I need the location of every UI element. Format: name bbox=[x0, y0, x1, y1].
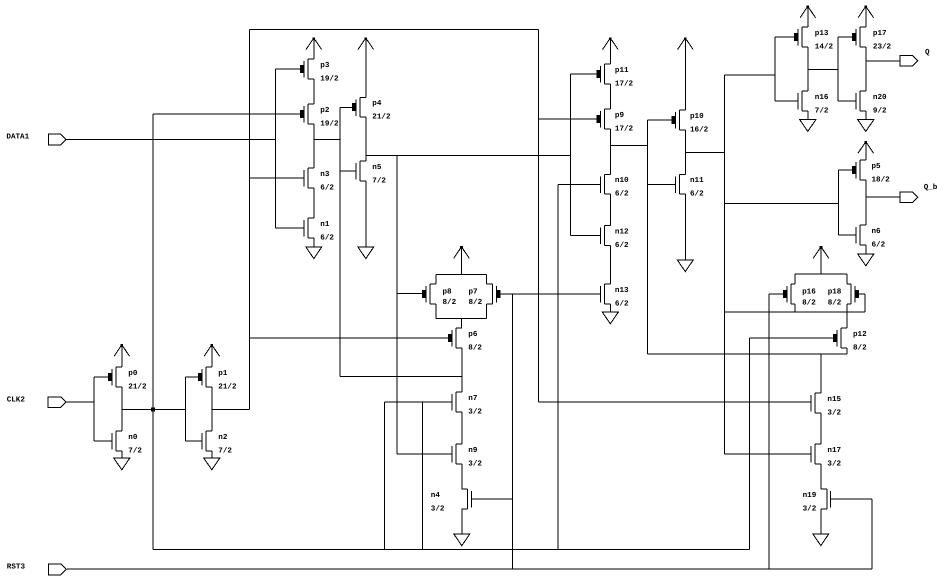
power VDD arrow above p17 bbox=[858, 6, 874, 27]
transistor n15 bbox=[811, 393, 842, 417]
wire pair1 box top bbox=[436, 274, 487, 284]
svg-text:3/2: 3/2 bbox=[468, 407, 482, 416]
svg-text:p3: p3 bbox=[320, 61, 330, 70]
svg-text:n15: n15 bbox=[827, 396, 841, 404]
wire Q_b output bbox=[866, 196, 900, 198]
svg-text:6/2: 6/2 bbox=[320, 233, 334, 242]
wire p3-p2 chain bbox=[313, 79, 315, 104]
wire p17/n20 input vertical bbox=[837, 37, 839, 101]
wire Q output bbox=[866, 60, 900, 62]
transistor p10 bbox=[671, 110, 708, 134]
wire p9-n10 chain bbox=[609, 129, 611, 175]
transistor p7 bbox=[469, 284, 501, 307]
svg-text:3/2: 3/2 bbox=[431, 504, 445, 513]
wire n12 gate bbox=[571, 235, 601, 237]
wire n19 gate bbox=[831, 498, 872, 500]
wire node S2 to p10/n11 input bbox=[610, 145, 647, 147]
power VDD arrow above p4 bbox=[358, 37, 374, 97]
transistor p1 bbox=[198, 367, 237, 391]
svg-text:7/2: 7/2 bbox=[218, 446, 232, 455]
transistor n19 bbox=[803, 489, 831, 513]
svg-text:6/2: 6/2 bbox=[872, 240, 886, 249]
wire p12 gate vertical bbox=[748, 338, 750, 550]
wire p13 gate bbox=[775, 36, 794, 38]
svg-text:n7: n7 bbox=[468, 395, 478, 403]
wire n9-n4 chain bbox=[461, 464, 463, 489]
svg-text:6/2: 6/2 bbox=[320, 183, 334, 192]
svg-text:6/2: 6/2 bbox=[615, 299, 629, 308]
wire p5-n6 chain bbox=[865, 180, 867, 225]
transistor n11 bbox=[676, 174, 705, 198]
wire p5/n6 input vertical bbox=[837, 170, 839, 235]
svg-text:p11: p11 bbox=[615, 67, 629, 75]
transistor n10 bbox=[601, 174, 630, 198]
ground below n20 bbox=[858, 111, 874, 132]
svg-text:8/2: 8/2 bbox=[828, 298, 842, 307]
transistor n4 bbox=[431, 489, 472, 513]
svg-text:n6: n6 bbox=[872, 227, 882, 236]
wire clkb vertical bbox=[152, 114, 154, 550]
wire n10-n12 chain bbox=[609, 194, 611, 225]
wire node M to p6/n7 midpoint bbox=[340, 376, 462, 378]
power VDD arrow above p5 bbox=[858, 141, 874, 160]
wire n4 gate bbox=[472, 498, 513, 500]
wire p0/n0 input vertical bbox=[93, 377, 95, 441]
wire n15-n17 chain bbox=[820, 413, 822, 444]
svg-text:n1: n1 bbox=[320, 221, 330, 229]
wire clk inverter2 output bbox=[212, 408, 250, 410]
svg-text:9/2: 9/2 bbox=[873, 106, 887, 115]
wire n15 gate bbox=[539, 401, 811, 403]
svg-text:19/2: 19/2 bbox=[320, 119, 339, 128]
wire p1/n2 input vertical bbox=[184, 377, 186, 441]
power VDD arrow above p11 bbox=[603, 37, 619, 64]
svg-text:p2: p2 bbox=[320, 106, 330, 115]
svg-text:n13: n13 bbox=[615, 286, 629, 295]
wire n0 gate bbox=[94, 440, 112, 442]
svg-text:n20: n20 bbox=[873, 93, 887, 102]
transistor n12 bbox=[601, 226, 630, 250]
svg-text:8/2: 8/2 bbox=[469, 298, 483, 307]
wire slave node vertical bbox=[723, 75, 725, 454]
transistor p0 bbox=[108, 367, 147, 391]
wire p18 gate drop bbox=[864, 294, 866, 312]
power VDD arrow above p1 bbox=[204, 344, 220, 367]
svg-text:21/2: 21/2 bbox=[218, 382, 237, 391]
wire n3-n1 chain bbox=[313, 188, 315, 218]
transistor n7 bbox=[452, 392, 482, 416]
svg-text:n0: n0 bbox=[128, 433, 138, 442]
wire p9 gate bbox=[539, 118, 597, 120]
wire n3 gate bbox=[250, 177, 304, 179]
wire pair2 box top bbox=[795, 274, 847, 284]
ground below n2 bbox=[204, 451, 220, 470]
transistor p3 bbox=[300, 59, 339, 83]
wire RST3 vertical to p16 bbox=[768, 294, 770, 569]
svg-text:3/2: 3/2 bbox=[468, 459, 482, 468]
svg-text:7/2: 7/2 bbox=[372, 176, 386, 185]
transistor n1 bbox=[304, 218, 334, 242]
input port RST3 bbox=[7, 563, 67, 575]
wire inverter to inverter bbox=[808, 68, 838, 70]
wire clk left vertical bbox=[249, 30, 251, 410]
transistor p8 bbox=[422, 284, 457, 307]
svg-text:n4: n4 bbox=[431, 492, 441, 500]
node clkb junction dot bbox=[151, 407, 155, 411]
ground below n19 bbox=[813, 509, 829, 546]
svg-text:7/2: 7/2 bbox=[815, 106, 829, 115]
wire n7 gate to clkb drop bbox=[422, 402, 424, 550]
svg-text:6/2: 6/2 bbox=[690, 190, 704, 199]
wire to Q inverter input bbox=[724, 74, 775, 76]
wire slave output to vertical bbox=[685, 152, 724, 154]
svg-text:6/2: 6/2 bbox=[615, 241, 629, 250]
svg-text:p7: p7 bbox=[469, 289, 479, 297]
wire p13-n16 chain bbox=[807, 47, 809, 91]
transistor n20 bbox=[856, 91, 887, 115]
wire p4 gate bbox=[340, 106, 352, 108]
wire p12 drain drop bbox=[846, 348, 848, 354]
svg-text:n9: n9 bbox=[468, 446, 478, 455]
svg-text:18/2: 18/2 bbox=[872, 175, 891, 184]
input port DATA1 bbox=[6, 133, 66, 145]
wire n1 gate bbox=[276, 227, 304, 229]
svg-text:n12: n12 bbox=[615, 227, 629, 236]
wire n10 gate bbox=[558, 183, 601, 185]
wire n5 gate bbox=[340, 170, 356, 172]
transistor p16 bbox=[783, 284, 816, 307]
svg-text:p5: p5 bbox=[872, 163, 882, 171]
power VDD arrow above p0 bbox=[114, 344, 130, 367]
svg-text:21/2: 21/2 bbox=[372, 113, 391, 122]
ground below n13 bbox=[602, 304, 618, 324]
transistor n0 bbox=[112, 431, 142, 455]
svg-text:p4: p4 bbox=[372, 100, 382, 108]
svg-text:n16: n16 bbox=[815, 93, 829, 102]
wire p11/n12 gate vertical bbox=[570, 74, 572, 236]
svg-text:23/2: 23/2 bbox=[873, 42, 892, 51]
wire p7/n13 gates bbox=[500, 293, 600, 295]
wire n7-n9 chain bbox=[461, 412, 463, 444]
svg-text:6/2: 6/2 bbox=[615, 190, 629, 199]
transistor p9 bbox=[596, 109, 633, 133]
wire p6 gate bbox=[250, 337, 448, 339]
svg-text:16/2: 16/2 bbox=[690, 125, 709, 134]
wire DATA1 gate vertical (p3/n1 gates) bbox=[275, 69, 277, 228]
svg-text:n19: n19 bbox=[803, 491, 817, 500]
svg-text:p0: p0 bbox=[128, 369, 138, 378]
wire RST3 rail bbox=[67, 568, 872, 570]
svg-text:3/2: 3/2 bbox=[827, 459, 841, 468]
wire n7 gate vertical bbox=[384, 402, 386, 550]
ground below n5 bbox=[358, 181, 374, 259]
wire n19 gate return vertical bbox=[871, 499, 873, 569]
svg-text:19/2: 19/2 bbox=[320, 74, 339, 83]
svg-text:n5: n5 bbox=[372, 164, 382, 172]
wire p18 drain drop bbox=[846, 304, 848, 312]
wire clkb inverter output bbox=[122, 408, 186, 410]
wire n17-n19 chain bbox=[820, 464, 822, 489]
svg-text:n2: n2 bbox=[218, 433, 228, 442]
transistor p2 bbox=[300, 104, 339, 128]
wire p8 gate bbox=[397, 292, 422, 294]
wire n2 gate bbox=[185, 440, 202, 442]
wire node S2 keeper horizontal bbox=[648, 353, 848, 355]
wire pair1 to p6 bbox=[461, 319, 463, 329]
svg-text:8/2: 8/2 bbox=[802, 298, 816, 307]
power VDD arrow above p3 bbox=[306, 37, 322, 59]
ground below n0 bbox=[114, 451, 130, 470]
power VDD arrow above p8/p7 pair bbox=[454, 246, 470, 274]
svg-text:n11: n11 bbox=[690, 177, 704, 185]
ground below n1 bbox=[306, 238, 322, 259]
transistor n9 bbox=[452, 444, 482, 468]
svg-text:p13: p13 bbox=[815, 29, 829, 38]
ground below n16 bbox=[800, 111, 816, 132]
wire clk mid vertical bbox=[538, 30, 540, 402]
transistor p17 bbox=[852, 27, 892, 51]
wire CLK2 from port bbox=[67, 401, 95, 403]
wire n12-n13 chain bbox=[609, 245, 611, 284]
svg-text:Q: Q bbox=[925, 48, 930, 57]
svg-text:p9: p9 bbox=[615, 111, 625, 120]
wire RST3 vertical to p7/n13 bbox=[511, 294, 513, 569]
svg-text:Q_b: Q_b bbox=[924, 183, 938, 192]
svg-text:p6: p6 bbox=[468, 330, 478, 339]
svg-text:21/2: 21/2 bbox=[128, 382, 147, 391]
svg-text:n3: n3 bbox=[320, 170, 330, 179]
wire n9 gate bbox=[397, 453, 452, 455]
wire p10 gate bbox=[648, 119, 672, 121]
wire p16 gate bbox=[769, 293, 783, 295]
svg-text:p16: p16 bbox=[802, 288, 816, 297]
wire n16 gate bbox=[775, 100, 798, 102]
wire p11 gate bbox=[571, 73, 597, 75]
wire p0-n0 chain bbox=[121, 387, 123, 431]
power VDD arrow above p13 bbox=[800, 6, 816, 27]
wire n11 gate bbox=[648, 183, 676, 185]
svg-text:p18: p18 bbox=[828, 288, 842, 297]
svg-text:p12: p12 bbox=[853, 330, 867, 339]
wire n20 gate bbox=[838, 100, 856, 102]
wire n10 gate vertical bbox=[557, 184, 559, 549]
wire clkb p2 gate bbox=[153, 113, 300, 115]
wire p18 gate bbox=[859, 293, 865, 295]
wire p10/n11 gate vertical bbox=[647, 120, 649, 354]
transistor n5 bbox=[356, 161, 386, 185]
transistor p4 bbox=[352, 97, 391, 121]
wire p16 drain drop bbox=[794, 304, 796, 312]
wire p6-n7 chain bbox=[461, 348, 463, 392]
transistor n2 bbox=[202, 431, 232, 455]
output port Q_b bbox=[900, 183, 938, 203]
wire n7 gate bbox=[385, 401, 453, 403]
wire pair1 box bottom bbox=[436, 304, 487, 319]
wire keeper source rail bbox=[724, 311, 865, 313]
ground below n6 bbox=[858, 245, 874, 266]
wire p17 gate bbox=[838, 36, 852, 38]
svg-text:n10: n10 bbox=[615, 176, 629, 185]
svg-text:8/2: 8/2 bbox=[853, 343, 867, 352]
wire n6 gate bbox=[838, 234, 856, 236]
wire node S horizontal bbox=[366, 154, 571, 156]
wire DATA1 from port to gate column bbox=[66, 139, 275, 141]
ground below n11 bbox=[677, 194, 693, 272]
svg-text:p1: p1 bbox=[218, 370, 228, 378]
transistor p12 bbox=[833, 328, 867, 352]
wire p12 gate bbox=[749, 337, 833, 339]
wire p17-n20 chain bbox=[865, 47, 867, 91]
wire n17 gate bbox=[724, 453, 811, 455]
svg-text:p8: p8 bbox=[443, 288, 453, 297]
wire clk top rail bbox=[250, 29, 539, 31]
transistor n17 bbox=[811, 444, 842, 468]
svg-text:14/2: 14/2 bbox=[815, 42, 834, 51]
power VDD arrow above p10 bbox=[678, 37, 694, 110]
wire p12 source drop bbox=[846, 312, 848, 328]
svg-text:8/2: 8/2 bbox=[468, 343, 482, 352]
svg-text:DATA1: DATA1 bbox=[6, 133, 29, 141]
svg-text:RST3: RST3 bbox=[7, 563, 26, 572]
transistor p6 bbox=[448, 328, 483, 352]
wire p13/n16 input vertical bbox=[774, 37, 776, 101]
wire p10-n11 chain bbox=[684, 130, 686, 175]
transistor n3 bbox=[304, 168, 334, 192]
wire p4-n5 chain bbox=[365, 117, 367, 161]
wire node M to inverter bbox=[314, 139, 340, 141]
output port Q bbox=[900, 48, 930, 66]
wire p1-n2 chain bbox=[211, 387, 213, 431]
wire clkb bottom rail bbox=[153, 549, 749, 551]
wire keeper to n15 drain bbox=[820, 354, 822, 393]
transistor p13 bbox=[794, 27, 834, 51]
ground below n4 bbox=[454, 509, 470, 546]
svg-text:CLK2: CLK2 bbox=[7, 396, 26, 405]
wire p1 gate bbox=[185, 376, 198, 378]
wire p11-p9 chain bbox=[609, 84, 611, 109]
wire p2-n3 chain bbox=[313, 124, 315, 168]
wire n9 gate vertical bbox=[396, 155, 398, 454]
transistor n13 bbox=[601, 284, 630, 308]
transistor n16 bbox=[798, 91, 829, 115]
transistor p18 bbox=[828, 284, 860, 307]
wire p4/n5 input vertical bbox=[339, 107, 341, 376]
svg-text:p10: p10 bbox=[690, 112, 704, 121]
transistor p5 bbox=[852, 160, 890, 184]
input port CLK2 bbox=[7, 396, 66, 408]
wire p5 gate bbox=[838, 169, 851, 171]
wire p0 gate bbox=[94, 376, 108, 378]
transistor n6 bbox=[856, 225, 886, 249]
svg-text:3/2: 3/2 bbox=[827, 408, 841, 417]
wire p3 gate bbox=[276, 68, 300, 70]
svg-text:17/2: 17/2 bbox=[615, 124, 634, 133]
svg-text:17/2: 17/2 bbox=[615, 79, 634, 88]
svg-text:8/2: 8/2 bbox=[443, 298, 457, 307]
svg-text:3/2: 3/2 bbox=[803, 504, 817, 513]
transistor p11 bbox=[596, 64, 633, 88]
power VDD arrow above p16/p18 pair bbox=[813, 246, 829, 274]
svg-text:7/2: 7/2 bbox=[128, 446, 142, 455]
wire to Q_b inverter input bbox=[724, 202, 838, 204]
svg-text:p17: p17 bbox=[873, 30, 887, 38]
svg-text:n17: n17 bbox=[827, 447, 841, 455]
